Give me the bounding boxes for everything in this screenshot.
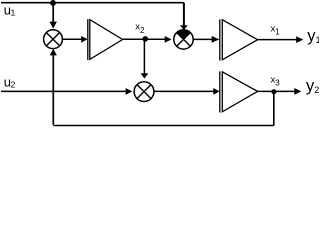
- node x2: junction dot: [143, 36, 149, 42]
- wire: vertical arrow from top line into multiplier M1: [52, 3, 54, 23]
- wire: u1 top horizontal line: [1, 2, 184, 4]
- wire: T1 output line to node x2 and on toward multiplier M3: [123, 38, 166, 40]
- wire: M2 output to integrator T3 with arrowhead: [154, 90, 214, 92]
- wire: vertical drop from top line into multiplier M3: [183, 3, 185, 26]
- node x3: junction dot: [271, 89, 276, 94]
- wire: T3 output line x3 with arrowhead to y2: [258, 90, 295, 92]
- arrowhead of top wire into M3: [180, 25, 188, 30]
- wire: vertical arrow from node x2 down into multiplier M2: [143, 39, 145, 74]
- wire: T2 output line x1 with arrowhead to y1: [258, 39, 297, 41]
- integrator T1 (triangle with doubled left edge): [87, 19, 89, 60]
- wire: u2 input line with arrowhead into M2: [1, 90, 126, 92]
- wire: bottom feedback line: [53, 125, 273, 127]
- multiplier M2 (circle with X): [134, 82, 154, 102]
- integrator T3 (triangle with doubled left edge): [219, 71, 221, 112]
- integrator T2 (triangle with doubled left edge): [219, 19, 221, 60]
- wire: right riser from bottom feedback line up to node x3: [273, 92, 275, 126]
- node: junction dot on top line above multiplier M1: [50, 0, 56, 6]
- wire: M3 output to integrator T2 with arrowhead: [193, 38, 212, 40]
- wire: M1 output to integrator T1 with arrowhead: [62, 38, 82, 40]
- wire: feedback arrow entering M1 from below: [50, 49, 57, 56]
- multiplier M1 (circle with X): [44, 30, 63, 49]
- multiplier M3 (circle with X, filled top sector): [174, 30, 193, 49]
